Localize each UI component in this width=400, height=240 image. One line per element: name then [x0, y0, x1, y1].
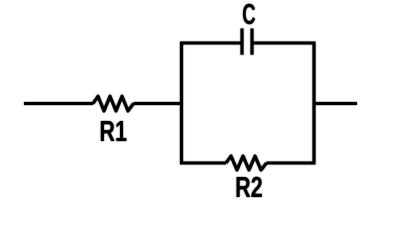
- node A left junction / wire left vertical branch: [180, 42, 183, 165]
- wire left lead: [24, 102, 93, 105]
- wire top left to capacitor: [180, 41, 241, 44]
- wire R2 to bottom right: [267, 161, 316, 164]
- label C: [243, 4, 255, 25]
- label R1: [101, 121, 127, 141]
- wire right vertical branch: [312, 42, 315, 165]
- resistor R1: [93, 96, 134, 111]
- capacitor C right plate: [250, 29, 253, 55]
- label R2: [237, 177, 262, 197]
- soft halo duplicate of artwork (edge softening): [24, 4, 357, 197]
- wire R1 to node A: [134, 102, 182, 105]
- resistor R2: [226, 156, 267, 170]
- wire bottom left to R2: [180, 161, 226, 164]
- wire capacitor to top right: [254, 41, 316, 44]
- capacitor C left plate: [240, 29, 243, 55]
- wire right lead: [314, 102, 357, 105]
